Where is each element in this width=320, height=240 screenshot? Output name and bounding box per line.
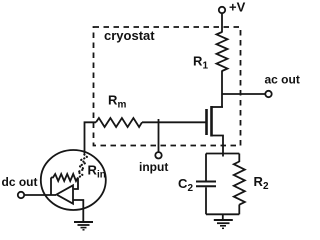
wire R1 to drain node: [221, 71, 223, 108]
transistor U1 channel plate: [210, 106, 213, 137]
cryostat dashed box: [94, 27, 241, 146]
transistor U1 gate plate: [205, 109, 208, 135]
wire amp input jog: [74, 178, 78, 190]
svg-text:R: R: [193, 54, 203, 69]
capacitor C2: [196, 182, 216, 187]
wire dc out: [24, 194, 56, 196]
label C2: [178, 176, 194, 194]
label Rm: [108, 92, 127, 110]
svg-text:in: in: [97, 170, 106, 181]
ground left: [74, 222, 93, 230]
wire gate to Rm: [142, 121, 207, 123]
svg-text:2: 2: [188, 183, 194, 194]
terminal input: [155, 152, 161, 158]
svg-text:R: R: [108, 92, 118, 107]
wire ground stub right: [222, 214, 224, 219]
svg-text:R: R: [254, 174, 264, 189]
svg-text:dc out: dc out: [2, 175, 38, 189]
svg-text:C: C: [178, 176, 188, 191]
wire C2 top lead: [205, 154, 207, 182]
terminal +V: [219, 7, 225, 13]
wire amp to ground: [73, 200, 83, 222]
svg-text:R: R: [88, 163, 98, 178]
wire Rm left lead: [85, 122, 97, 153]
circle detector housing: [41, 150, 106, 210]
resistor Rm: [96, 118, 142, 127]
terminal ac out: [265, 91, 271, 97]
svg-text:cryostat: cryostat: [104, 28, 155, 43]
svg-text:+V: +V: [229, 0, 246, 15]
wire R2 bottom lead: [238, 205, 240, 215]
transistor U1 source wire: [212, 136, 224, 157]
label Rin: [88, 163, 106, 181]
wire feedback left leg: [50, 178, 52, 196]
wire input junction: [158, 119, 160, 152]
wire output loop bottom rail: [206, 213, 239, 215]
wire C2 bottom lead: [205, 187, 207, 214]
svg-text:m: m: [118, 99, 127, 110]
svg-text:ac out: ac out: [265, 73, 300, 87]
op-amp U2 triangle: [57, 185, 74, 203]
resistor R1: [217, 32, 228, 71]
terminal dc out: [18, 192, 24, 198]
label R2: [254, 174, 270, 192]
svg-text:2: 2: [263, 181, 269, 192]
wire R2 top lead: [238, 154, 240, 163]
svg-text:input: input: [139, 160, 168, 174]
resistor R2: [234, 162, 245, 205]
wire ac out: [222, 93, 265, 95]
svg-text:1: 1: [203, 61, 209, 72]
wire output loop top rail: [206, 153, 239, 155]
resistor Rin dotted: [78, 155, 87, 178]
transistor U1 drain wire: [212, 106, 224, 108]
ground right: [214, 220, 233, 228]
wire +V to R1: [221, 13, 223, 32]
label R1: [193, 54, 209, 72]
resistor feedback zigzag: [51, 174, 78, 181]
